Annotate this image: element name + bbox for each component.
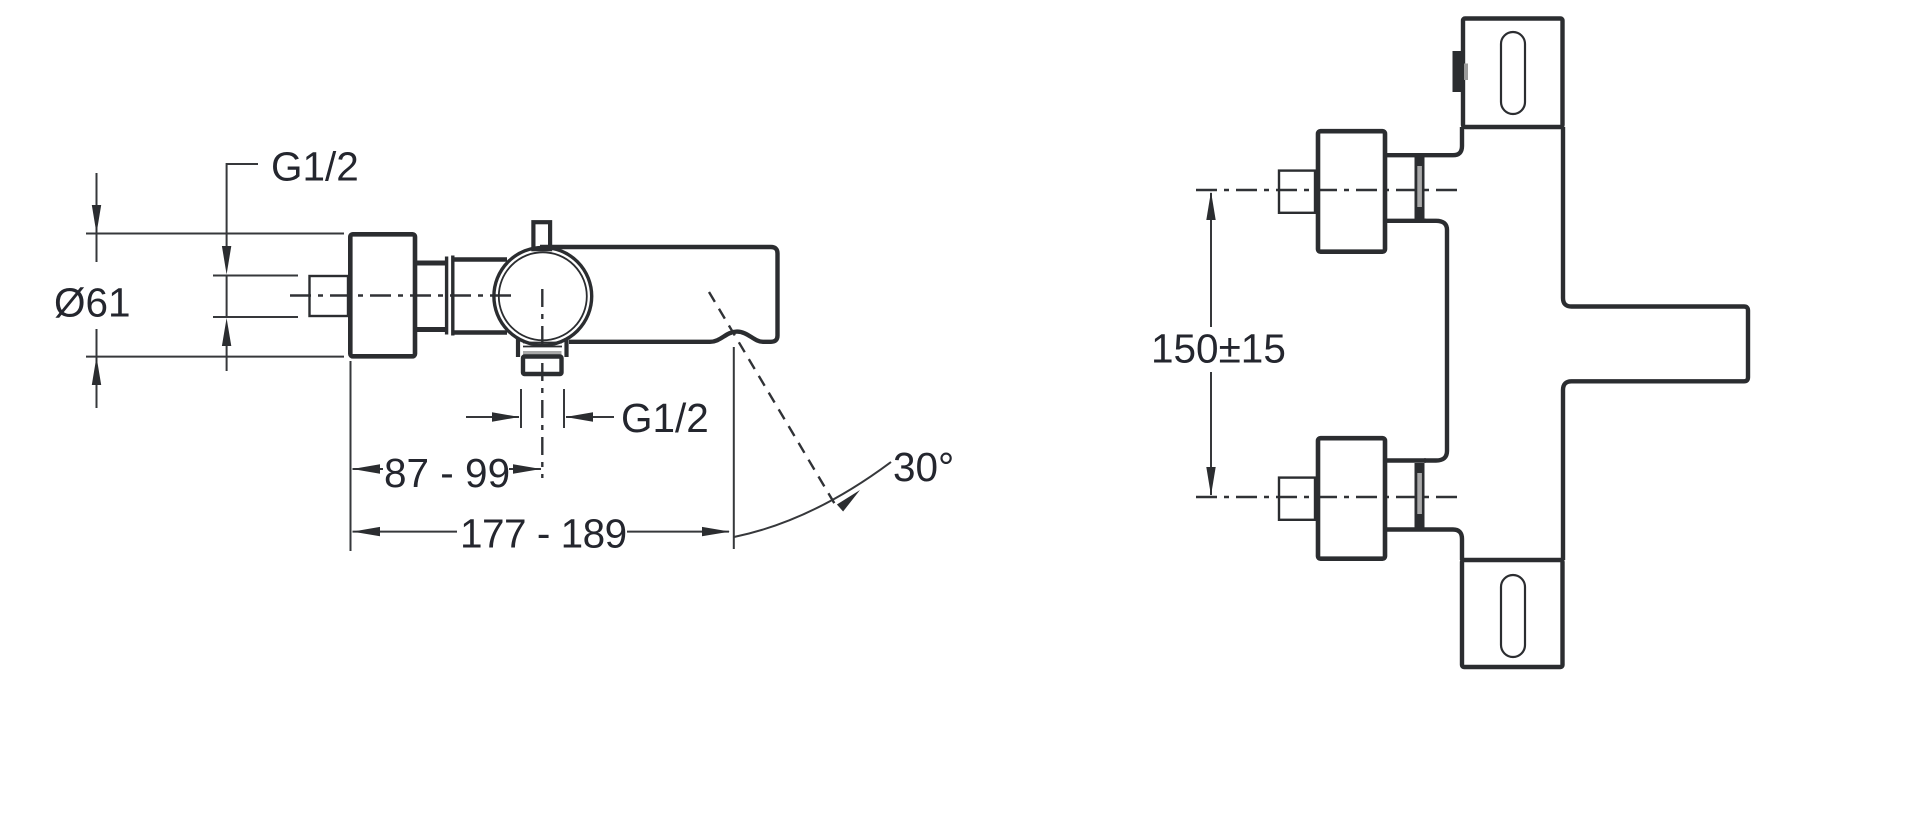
svg-text:Ø61: Ø61	[54, 280, 131, 326]
svg-text:G1/2: G1/2	[621, 395, 709, 441]
svg-text:150±15: 150±15	[1151, 326, 1286, 372]
svg-text:177 - 189: 177 - 189	[460, 511, 627, 557]
svg-text:G1/2: G1/2	[271, 144, 359, 190]
svg-text:87 - 99: 87 - 99	[384, 450, 510, 496]
svg-text:30°: 30°	[893, 444, 954, 490]
